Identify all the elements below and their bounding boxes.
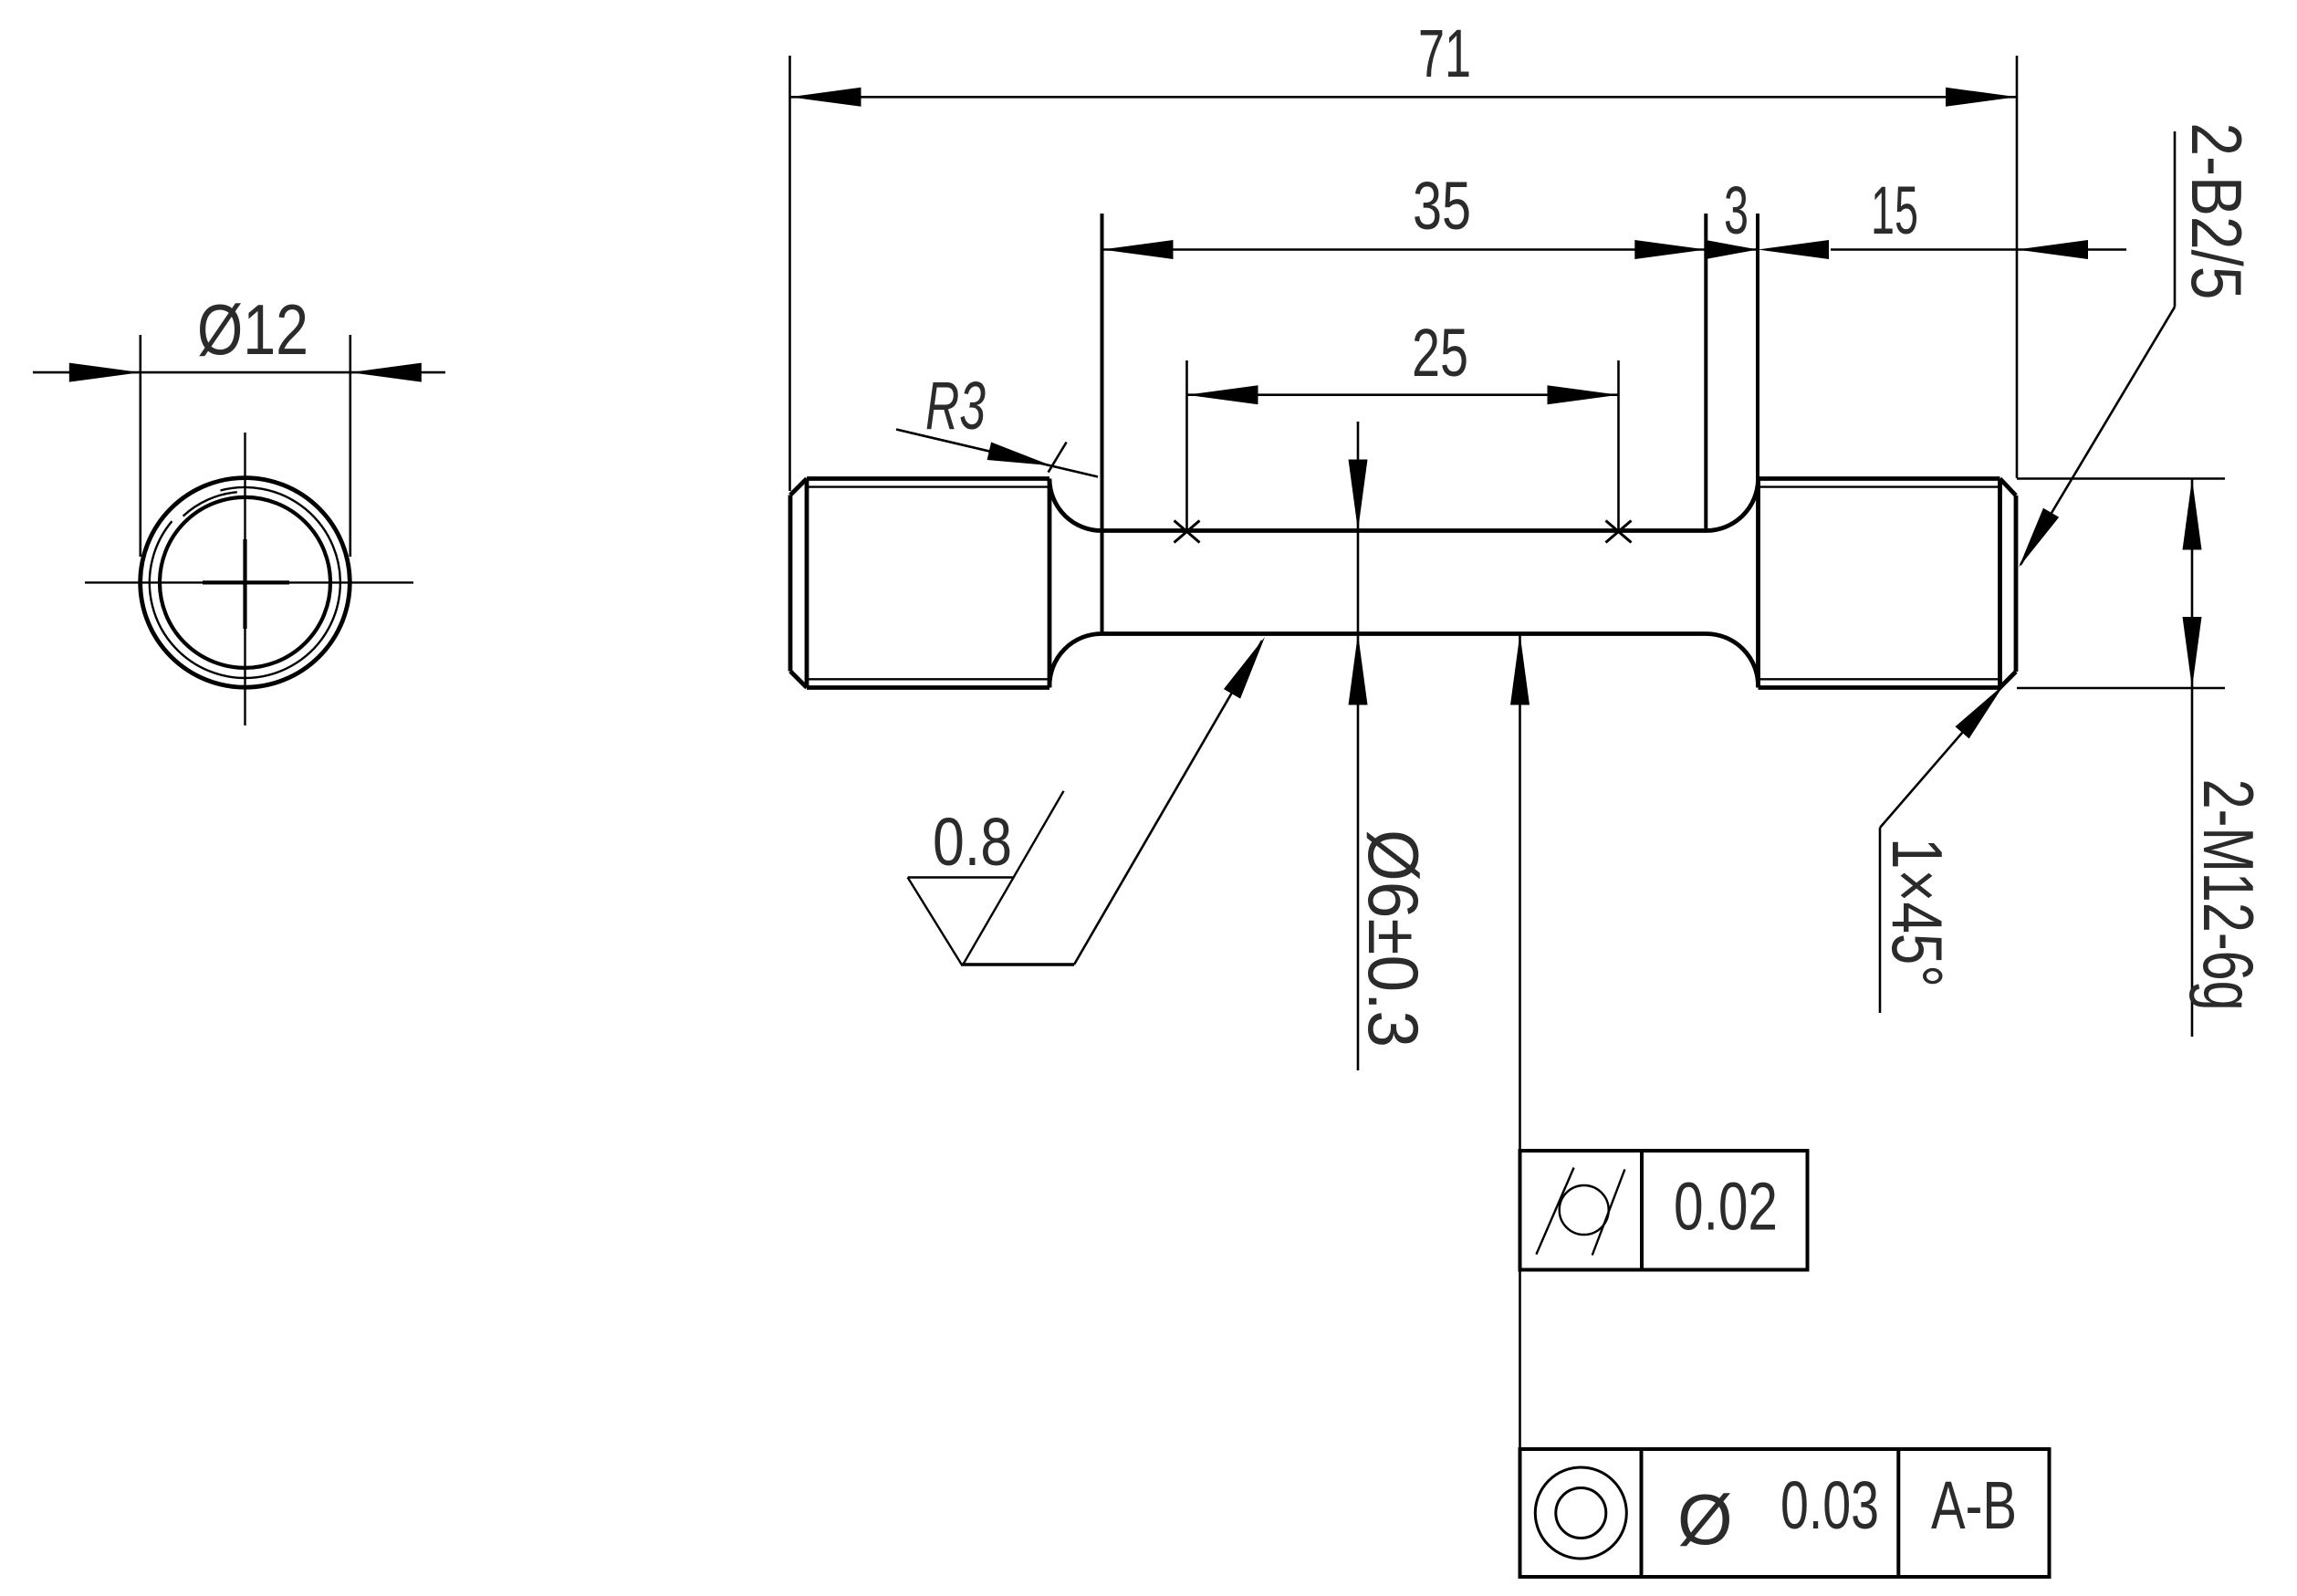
svg-text:0.02: 0.02 xyxy=(1674,1169,1778,1245)
svg-text:Ø6±0.3: Ø6±0.3 xyxy=(1353,829,1434,1048)
2-B2/5 leader diagonal xyxy=(2020,307,2175,565)
surface finish symbol bar xyxy=(908,876,1014,878)
left head crest top line xyxy=(807,476,1049,481)
cylindricity frame divider xyxy=(1640,1151,1644,1270)
dimension 35-3-15 dimension line xyxy=(1102,248,1759,251)
svg-text:35: 35 xyxy=(1413,168,1471,244)
end view centerline horizontal xyxy=(85,581,413,583)
dimension 25 right extension line xyxy=(1617,360,1620,533)
surface finish symbol left stroke xyxy=(908,878,963,966)
right head end face edge xyxy=(2014,495,2019,672)
surface finish leader arrowhead xyxy=(1224,637,1265,699)
surface finish symbol right stroke xyxy=(963,791,1064,966)
svg-text:71: 71 xyxy=(1418,16,1471,91)
M12 dimension line xyxy=(2191,479,2194,1038)
left head crest bottom line xyxy=(807,685,1049,690)
fillet R3 top-right xyxy=(1707,480,1759,531)
svg-text:Ø: Ø xyxy=(1677,1479,1733,1559)
right head thread root bottom line xyxy=(1759,678,2002,680)
svg-text:Ø12: Ø12 xyxy=(197,289,308,370)
left head chamfer corner top xyxy=(790,479,807,495)
left head right edge xyxy=(1048,479,1052,688)
svg-text:0.8: 0.8 xyxy=(933,804,1012,880)
cylindricity symbol circle xyxy=(1560,1185,1609,1235)
cylindricity symbol right slash xyxy=(1592,1169,1625,1255)
concentricity frame divider 2 xyxy=(1896,1449,1900,1577)
neck top line xyxy=(1102,528,1707,533)
dimension Ø12 dimension line xyxy=(33,371,445,374)
R3 leader arrowhead xyxy=(987,443,1051,466)
right head chamfer boundary line xyxy=(1998,479,2002,688)
end view thread root circle (thin, with gap) xyxy=(150,487,340,678)
dimension 35 arrowheads xyxy=(1102,240,1174,259)
fillet R3 bottom-right xyxy=(1707,634,1759,687)
dimension 3 arrowheads xyxy=(1706,240,1758,259)
R3 leader line xyxy=(896,430,1098,477)
chamfer leader landing line xyxy=(1879,828,1882,1013)
surface finish leader horizontal xyxy=(961,963,1074,965)
left head chamfer boundary line xyxy=(805,479,809,688)
chamfer leader diagonal xyxy=(1880,684,2004,828)
dimension Ø12 extension lines xyxy=(140,335,142,557)
frame connector line xyxy=(1519,1270,1521,1450)
chamfer leader arrowhead xyxy=(1956,684,2005,738)
end view centerline vertical xyxy=(244,433,245,725)
left head end face edge xyxy=(788,495,793,672)
2-B2/5 leader arrowhead xyxy=(2019,508,2059,568)
right head crest bottom line xyxy=(1759,685,2000,690)
svg-text:0.03: 0.03 xyxy=(1780,1467,1879,1543)
dimension 71 right extension line xyxy=(2016,56,2019,478)
concentricity symbol outer circle xyxy=(1535,1467,1626,1559)
2-B2/5 landing line xyxy=(2174,131,2177,307)
cylindricity symbol left slash xyxy=(1536,1168,1573,1255)
concentricity frame divider 1 xyxy=(1640,1449,1644,1577)
M12 dimension bottom extension line xyxy=(2017,687,2225,690)
M12 dimension arrowheads xyxy=(2183,479,2202,550)
dimension 15 outside arrowhead xyxy=(2017,240,2088,259)
dimension Ø6 dimension line xyxy=(1357,422,1360,1070)
svg-text:2-B2/5: 2-B2/5 xyxy=(2177,122,2257,299)
end view center mark cross xyxy=(203,580,289,584)
right head chamfer corner bottom xyxy=(2000,672,2017,688)
gauge mark left xyxy=(1175,521,1200,543)
fillet R3 top-left xyxy=(1049,480,1102,531)
dimension 3 right extension line xyxy=(1756,214,1759,479)
end view thread major diameter circle xyxy=(141,478,350,688)
dimension 25 arrowheads xyxy=(1187,385,1258,404)
end view thread root arc remnant xyxy=(183,492,237,516)
right head left edge xyxy=(1756,479,1760,688)
cylindricity leader line xyxy=(1519,634,1521,1152)
left head thread root bottom line xyxy=(807,678,1049,680)
surface finish leader diagonal xyxy=(1074,641,1262,965)
svg-text:25: 25 xyxy=(1412,315,1468,391)
svg-text:15: 15 xyxy=(1871,172,1918,248)
dimension 71 left extension line xyxy=(788,56,791,491)
concentricity symbol inner circle xyxy=(1556,1488,1606,1539)
svg-text:3: 3 xyxy=(1724,172,1749,248)
dimension 35 left extension line xyxy=(1101,214,1104,634)
left head thread root top line xyxy=(807,485,1049,487)
svg-text:1×45°: 1×45° xyxy=(1877,838,1958,987)
M12 dimension top extension line xyxy=(2017,477,2225,480)
svg-text:A-B: A-B xyxy=(1931,1467,2017,1543)
R3 tick mark xyxy=(1049,443,1067,473)
concentricity frame box xyxy=(1520,1449,2050,1577)
svg-text:2-M12-6g: 2-M12-6g xyxy=(2188,779,2269,1011)
right head thread root top line xyxy=(1759,485,2002,487)
left head chamfer corner bottom xyxy=(790,672,807,688)
dimension Ø12 arrowheads xyxy=(69,363,141,382)
right head chamfer corner top xyxy=(2000,479,2017,496)
dimension Ø6 arrowheads xyxy=(1349,460,1368,531)
dimension 71 dimension line xyxy=(790,96,2018,99)
svg-text:R3: R3 xyxy=(925,368,986,443)
dimension 71 arrowheads xyxy=(790,88,861,107)
cylindricity leader arrowhead xyxy=(1510,634,1530,705)
end view chamfer circle xyxy=(160,497,330,668)
dimension 25 dimension line xyxy=(1187,393,1619,396)
right head crest top line xyxy=(1759,476,2000,481)
gauge mark right xyxy=(1606,521,1632,543)
fillet R3 bottom-left xyxy=(1049,634,1102,687)
dimension 3 left extension line xyxy=(1704,214,1707,531)
neck bottom line xyxy=(1102,631,1707,636)
dimension 25 left extension line xyxy=(1185,360,1188,533)
cylindricity frame box xyxy=(1520,1151,1808,1270)
